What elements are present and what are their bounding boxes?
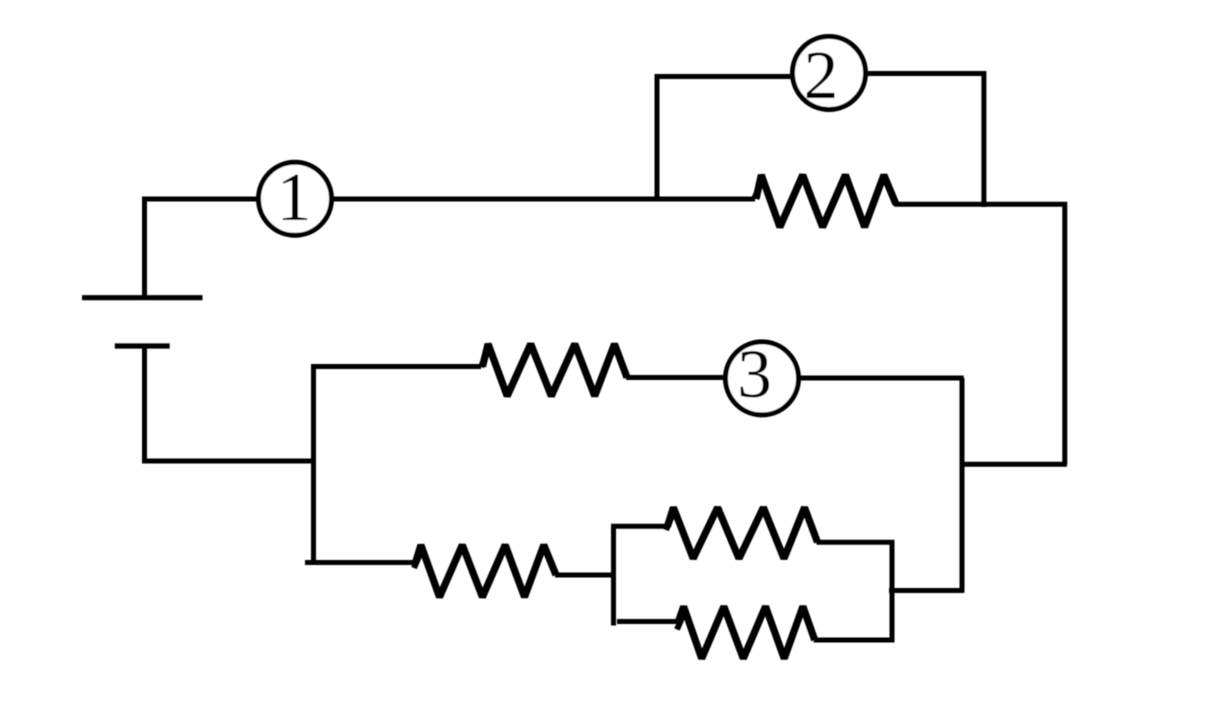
wire (865, 74, 984, 208)
wire (799, 376, 964, 381)
wire (145, 199, 260, 298)
node junction (611, 524, 616, 626)
wire (894, 204, 1065, 464)
resistor R3 (414, 545, 556, 597)
wire (611, 524, 666, 529)
wire (555, 573, 616, 578)
ammeter 3 (726, 336, 799, 415)
resistor R4 (666, 508, 818, 559)
wire (960, 378, 965, 593)
svg-text:1: 1 (277, 159, 312, 235)
node junction (311, 364, 316, 560)
wire (657, 77, 794, 201)
ammeter 1 (259, 159, 332, 235)
ammeter 2 (793, 37, 866, 114)
resistor R5 (677, 607, 815, 659)
resistor R1 (755, 175, 897, 227)
resistor R2 (481, 344, 627, 396)
battery (82, 298, 203, 346)
wire (311, 364, 481, 369)
wire (889, 588, 964, 593)
wire (626, 375, 727, 380)
wire (332, 197, 756, 202)
wire (962, 462, 1068, 467)
wire (145, 347, 317, 461)
wire (814, 542, 892, 640)
svg-text:2: 2 (804, 37, 839, 113)
wire (305, 560, 414, 565)
svg-text:3: 3 (737, 336, 772, 412)
wire (617, 619, 677, 624)
